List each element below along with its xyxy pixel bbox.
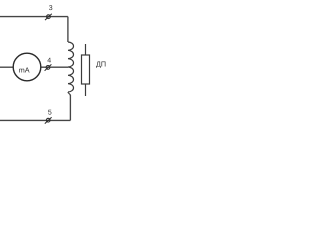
svg-text:5: 5 <box>48 109 52 116</box>
terminal 3 (socket symbol: circle with slash) <box>45 14 52 20</box>
movable core (plunger) of sensor DP: body rectangle <box>82 55 90 84</box>
wire: right branch vertical from coil bottom down to bottom corner <box>69 95 71 120</box>
movable core (plunger) of sensor DP: top stem <box>85 44 87 55</box>
svg-text:mA: mA <box>19 66 30 75</box>
wire: center tap lead from meter through terminal 4 to coil <box>41 66 68 68</box>
svg-text:ДП: ДП <box>96 60 106 69</box>
wire: meter left lead from left edge <box>0 66 13 68</box>
milliammeter PA1 (circle body) <box>13 53 41 81</box>
wire: top conductor from left edge through terminal 3 to top-right corner <box>0 16 68 18</box>
inductor L1 (sensor winding, 6 turns, center tapped) <box>68 42 74 92</box>
wire: jog from coil bottom to lower right vertical <box>68 92 70 96</box>
movable core (plunger) of sensor DP: bottom stem <box>85 84 87 96</box>
svg-text:4: 4 <box>47 57 51 64</box>
wire: bottom conductor from left edge through terminal 5 to bottom-right corner <box>0 119 70 121</box>
terminal 4 (socket symbol: circle with slash) <box>45 64 52 70</box>
wire: right branch vertical from top corner down to coil top <box>67 17 69 42</box>
terminal 5 (socket symbol: circle with slash) <box>45 117 52 123</box>
svg-text:3: 3 <box>49 5 53 12</box>
